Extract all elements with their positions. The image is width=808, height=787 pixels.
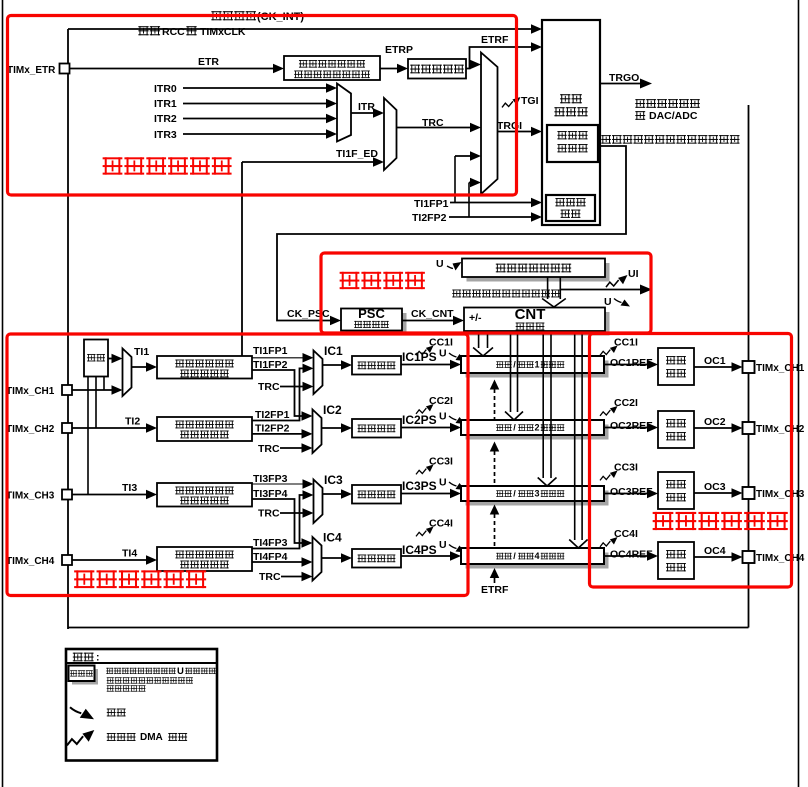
svg-text:ETR: ETR: [198, 56, 219, 68]
box slave mode controller 从模式控制器: [547, 125, 598, 162]
svg-text:TIMx_CH3: TIMx_CH3: [756, 489, 805, 500]
svg-text:PSC: PSC: [358, 306, 385, 321]
svg-text:OC4: OC4: [704, 545, 726, 557]
svg-text:TI3FP3: TI3FP3: [253, 473, 288, 485]
svg-text:TRGI: TRGI: [497, 120, 522, 132]
box prescaler channel 1 预分频器: [352, 356, 401, 375]
svg-text:TI1F_ED: TI1F_ED: [336, 148, 378, 160]
red box timer clock source region: [8, 16, 517, 196]
wire OC3: [694, 492, 734, 494]
mux channel1 input selector: [123, 349, 132, 397]
wire TI2FP1 up to IC1 mux: [253, 368, 306, 420]
wire TRGO: [600, 83, 640, 85]
svg-text:TRC: TRC: [258, 443, 280, 455]
box XOR 异或: [84, 340, 108, 377]
svg-text:ITR3: ITR3: [154, 129, 177, 141]
wire IC2 to prescaler: [322, 427, 345, 429]
svg-text:CC4I: CC4I: [614, 528, 638, 540]
box output control channel 2 输出控制: [658, 411, 694, 448]
svg-text:U: U: [604, 296, 612, 308]
svg-text:U: U: [436, 258, 444, 270]
mux IC4 selector: [313, 537, 322, 581]
svg-text:TI4FP3: TI4FP3: [253, 537, 288, 549]
svg-text:IC3PS: IC3PS: [402, 479, 437, 493]
svg-text:IC3: IC3: [324, 473, 343, 487]
mux IC2 selector: [313, 410, 322, 454]
box CNT counter 计数器: [469, 312, 610, 336]
box output control channel 3 输出控制: [658, 472, 694, 509]
right vertical bus wire: [748, 105, 750, 628]
box capture/compare register 4 捕获/比较 4 寄存器: [466, 553, 609, 569]
wire TRC row1: [280, 386, 305, 388]
wire OC2REF: [604, 427, 650, 429]
svg-text:DAC/ADC: DAC/ADC: [649, 110, 698, 122]
box prescaler channel 2 预分频器: [352, 419, 401, 438]
legend register box 寄存器: [72, 669, 98, 685]
box input filter 输入滤波器: [408, 59, 466, 79]
red box input capture region: [7, 334, 468, 596]
svg-text:TI4: TI4: [122, 548, 137, 560]
pad TIMx_CH1 output: [743, 361, 755, 373]
wire IC3PS to capture register: [401, 493, 452, 495]
svg-text:TI1FP1: TI1FP1: [253, 345, 288, 357]
wire XOR to mux: [108, 358, 115, 360]
svg-text:ITR2: ITR2: [154, 113, 177, 125]
bottom bus wire: [68, 627, 749, 629]
figure right border line: [798, 0, 800, 787]
svg-text:OC4REF: OC4REF: [610, 549, 653, 561]
legend title 注意:: [73, 653, 94, 662]
svg-text:UI: UI: [628, 268, 639, 280]
svg-text:IC2: IC2: [323, 403, 342, 417]
dashed capture arrow into register 2: [494, 451, 496, 485]
red label 定时器时钟源: [103, 157, 232, 174]
svg-text:TI1FP1: TI1FP1: [414, 198, 449, 210]
hollow arrow counter to capture register 2: [510, 332, 512, 412]
svg-text:CC2I: CC2I: [614, 397, 638, 409]
dashed capture arrow into register 3: [494, 514, 496, 547]
wire TRC row4: [281, 576, 304, 578]
wire CK_INT: [68, 28, 533, 30]
wire TI3FP4 down to IC4 mux: [253, 499, 306, 543]
svg-text:TIMxCLK: TIMxCLK: [200, 26, 246, 38]
svg-text:TIMx_CH4: TIMx_CH4: [6, 556, 55, 567]
mux ITR selector: [337, 84, 351, 142]
svg-text:ITR0: ITR0: [154, 83, 177, 95]
wire slave mode controller to prescaler clock CK_PSC: [277, 146, 626, 321]
wire ITR: [351, 112, 375, 114]
svg-text:TIMx_CH1: TIMx_CH1: [756, 363, 805, 374]
label UI and interrupt arrow update event: [606, 275, 627, 287]
left vertical bus wire: [67, 29, 69, 629]
wire IC2PS to capture register: [401, 427, 452, 429]
svg-text:U: U: [177, 666, 184, 677]
box prescaler channel 4 预分频器: [352, 549, 401, 568]
label TGI and interrupt arrow: [502, 97, 521, 107]
svg-text:TI2FP1: TI2FP1: [255, 409, 290, 421]
svg-text:IC2PS: IC2PS: [402, 413, 437, 427]
svg-text:OC1: OC1: [704, 355, 726, 367]
red box output compare region: [590, 334, 792, 588]
svg-text:ETRF: ETRF: [481, 34, 509, 46]
svg-text:OC2REF: OC2REF: [610, 420, 653, 432]
box input filter & edge detector channel 1 输入滤波器和边沿检测器: [157, 356, 252, 379]
pad TIMx_CH4 output: [743, 551, 755, 563]
wire CK_CNT: [402, 320, 455, 322]
svg-text:+/-: +/-: [469, 312, 482, 324]
red box time base unit region: [321, 253, 651, 333]
wire ITR2: [183, 118, 328, 120]
svg-text:TI2: TI2: [125, 416, 140, 428]
wire TI3FP3: [253, 483, 306, 485]
wire TRC row3: [280, 512, 305, 514]
svg-text:TIMx_CH2: TIMx_CH2: [756, 424, 805, 435]
svg-text:TI3: TI3: [122, 482, 137, 494]
legend interrupt/DMA icon: [67, 730, 94, 745]
figure left border line: [2, 0, 4, 787]
wire TI1F_ED: [241, 162, 243, 356]
wire OC4REF: [604, 555, 650, 557]
pad TIMx_CH2 output: [743, 422, 755, 434]
wire IC1PS to capture register: [401, 364, 452, 366]
svg-text:TIMx_CH3: TIMx_CH3: [6, 491, 55, 502]
svg-text:TIMx_CH2: TIMx_CH2: [6, 424, 55, 435]
svg-text:U: U: [439, 411, 447, 423]
box capture/compare register 2 捕获/比较 2 寄存器: [466, 425, 609, 440]
box output control channel 1 输出控制: [658, 348, 694, 385]
label 内部时钟(CK_INT): [211, 11, 256, 20]
box polarity selection 极性选择和边沿检测器和预分频器: [284, 56, 380, 80]
wire XOR inputs: [87, 377, 89, 495]
wire TI1FP2 down to IC2 mux: [253, 370, 306, 416]
legend text line1 根据控制位，在发生 U 事件后，: [106, 668, 175, 674]
svg-text:TI2FP2: TI2FP2: [412, 212, 447, 224]
svg-text:IC4PS: IC4PS: [402, 543, 437, 557]
svg-text:TRGO: TRGO: [609, 72, 639, 84]
box output control channel 4 输出控制: [658, 542, 694, 579]
label 停止、清零或递增/递减: [452, 290, 560, 298]
dashed capture arrow into register 1: [494, 389, 496, 419]
svg-text:IC1: IC1: [324, 344, 343, 358]
legend label 中断和 DMA 输出: [107, 733, 136, 741]
legend text line3 有效寄存器: [107, 685, 146, 691]
svg-text:ETRF: ETRF: [481, 584, 509, 596]
svg-text:TIMx_CH4: TIMx_CH4: [756, 553, 805, 564]
svg-text:CK_PSC: CK_PSC: [287, 308, 330, 320]
hollow arrow counter to capture register 4: [574, 332, 576, 540]
mux TRC selector: [384, 98, 397, 170]
wire ITR0: [183, 87, 328, 89]
svg-text:OC1REF: OC1REF: [610, 357, 653, 369]
svg-text:TRC: TRC: [258, 381, 280, 393]
box capture/compare register 3 捕获/比较 3 寄存器: [466, 491, 609, 506]
wire ETRF to trigger controller: [466, 47, 534, 69]
red label 输入捕获通道: [74, 570, 206, 588]
svg-text::: :: [96, 652, 100, 664]
pad TIMx_CH3 output: [743, 487, 755, 499]
svg-text:TRC: TRC: [258, 508, 280, 520]
svg-text:U: U: [439, 539, 447, 551]
box input filter & edge detector channel 2 输入滤波器和边沿检测器: [157, 417, 252, 441]
svg-text:4: 4: [534, 551, 539, 561]
hollow arrow auto-reload to counter: [547, 277, 549, 299]
wire TIMx_CH1 to mux: [72, 389, 114, 391]
svg-text:OC3REF: OC3REF: [610, 486, 653, 498]
svg-text:TI1: TI1: [134, 346, 149, 358]
wire TI1 to filter: [132, 366, 149, 368]
mux TRGI selector: [481, 53, 498, 195]
svg-text:TIMx_ETR: TIMx_ETR: [7, 65, 56, 76]
svg-text:1: 1: [534, 360, 539, 370]
wire OC1REF: [604, 364, 650, 366]
wire IC3 to prescaler: [323, 493, 345, 495]
wire TI2FP2: [253, 433, 305, 435]
box input filter & edge detector channel 3 输入滤波器和边沿检测器: [157, 483, 252, 507]
svg-text:DMA: DMA: [140, 732, 163, 743]
label 到其它定时器: [635, 99, 699, 108]
svg-text:U: U: [439, 477, 447, 489]
svg-text:2: 2: [534, 423, 539, 433]
hollow arrow counter to capture register 1: [478, 332, 480, 348]
svg-text:CC3I: CC3I: [614, 462, 638, 474]
svg-text:U: U: [439, 348, 447, 360]
svg-text:3: 3: [534, 489, 539, 499]
pad TIMx_ETR: [60, 64, 70, 74]
svg-text:TI2FP2: TI2FP2: [255, 423, 290, 435]
wire ETRF into register 4: [494, 577, 496, 583]
wire IC1 to prescaler: [323, 364, 345, 366]
box prescaler channel 3 预分频器: [352, 485, 401, 504]
label 复位、使能、递增/递减、计数: [601, 135, 739, 143]
wire OC2: [694, 427, 734, 429]
wire OC1: [694, 366, 734, 368]
red label 输出比较通道: [653, 512, 788, 530]
legend text line2 预装载寄存器内容转移到: [107, 677, 193, 683]
wire TI4FP4: [253, 561, 305, 563]
wire update event to right: [560, 289, 640, 291]
wire TI4FP3 up to IC3 mux: [253, 495, 306, 549]
legend label 事件: [107, 709, 126, 717]
svg-text:IC4: IC4: [323, 531, 342, 545]
wire OC4: [694, 556, 734, 558]
svg-text:CNT: CNT: [515, 306, 546, 323]
wire OC3REF: [604, 493, 650, 495]
box PSC prescaler 预分频器: [346, 313, 407, 335]
label 到 DAC/ADC: [635, 111, 645, 120]
wire IC4 to prescaler: [322, 557, 345, 559]
svg-text:ETRP: ETRP: [385, 44, 413, 56]
label 来自RCC 的 TIMxCLK: [138, 26, 160, 35]
mux IC3 selector: [314, 480, 323, 524]
box trigger controller 触发控制器: [542, 20, 600, 225]
hollow arrow counter to capture register 3: [542, 332, 544, 478]
legend event arrow icon: [70, 707, 94, 719]
box encoder interface 编码器接口: [546, 195, 595, 221]
svg-text:OC3: OC3: [704, 481, 726, 493]
wire ETRP: [380, 68, 399, 70]
svg-text:RCC: RCC: [162, 26, 185, 38]
red label 时基单元: [340, 272, 425, 289]
box input filter & edge detector channel 4 输入滤波器和边沿检测器: [157, 547, 252, 571]
wire ITR3: [183, 133, 328, 135]
svg-text:OC2: OC2: [704, 416, 726, 428]
legend separator line: [66, 662, 217, 664]
svg-text:TRC: TRC: [259, 571, 281, 583]
svg-text:CK_CNT: CK_CNT: [411, 308, 454, 320]
box capture/compare register 1 捕获/比较 1 寄存器: [466, 361, 609, 378]
svg-text:TIMx_CH1: TIMx_CH1: [6, 386, 55, 397]
wire IC4PS to capture register: [401, 555, 452, 557]
svg-text:CC1I: CC1I: [614, 337, 638, 349]
svg-text:ITR: ITR: [358, 101, 375, 113]
svg-text:TGI: TGI: [521, 95, 539, 107]
svg-text:ITR1: ITR1: [154, 98, 177, 110]
wire ETRF to TRGI mux: [470, 64, 475, 66]
wire TI1FP1: [253, 357, 306, 359]
mux IC1 selector: [314, 351, 323, 395]
wire ITR1: [183, 103, 328, 105]
wire TRC row2: [280, 447, 304, 449]
legend box 注意: [66, 649, 217, 761]
box auto-reload register 自动重载寄存器: [467, 263, 610, 282]
